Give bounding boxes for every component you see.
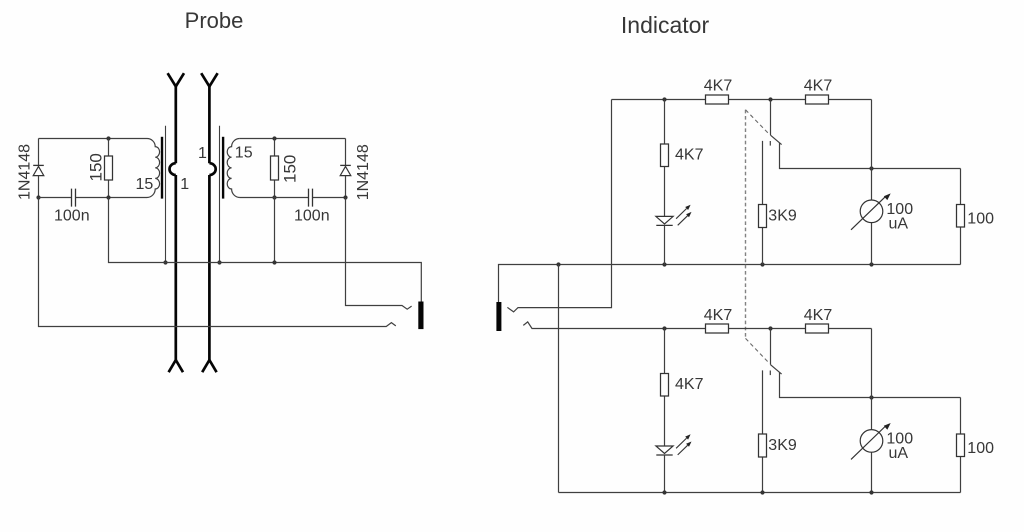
LED LED2 xyxy=(656,446,673,454)
svg-text:4K7: 4K7 xyxy=(704,307,733,324)
switch S2 blade xyxy=(771,365,782,374)
switch S1 blade xyxy=(771,135,782,144)
switch S1 pole xyxy=(770,100,772,136)
node out2-meter xyxy=(869,395,873,399)
resistor R7 100 xyxy=(960,169,962,265)
node left top junction xyxy=(106,136,110,140)
diode D2 1N4148 xyxy=(345,139,347,166)
transformer T2 secondary winding 15 turns xyxy=(227,139,240,198)
svg-text:100: 100 xyxy=(967,440,994,457)
meter M2 100uA xyxy=(860,430,883,453)
svg-text:3K9: 3K9 xyxy=(768,437,797,454)
svg-text:1: 1 xyxy=(180,176,189,193)
switch gang dashed link xyxy=(745,110,747,339)
probe antenna tip 1 with 1-turn winding xyxy=(168,73,184,372)
transformer T1 core bar xyxy=(161,137,163,199)
wire probe upper output to plug contact xyxy=(346,198,412,310)
node toprail1-switch xyxy=(768,97,772,101)
wire ch2 bottom rail xyxy=(559,492,961,494)
resistor R1 150 xyxy=(108,139,110,198)
svg-text:100n: 100n xyxy=(294,208,330,225)
node botrail2-led xyxy=(662,490,666,494)
diode D1 1N4148 xyxy=(38,139,40,166)
resistor R5 4K7 vertical ch1 xyxy=(664,100,666,217)
resistor R12 100 xyxy=(960,398,962,493)
capacitor C2 100n xyxy=(309,189,313,207)
wire right resistor branch to rail xyxy=(274,198,276,263)
resistor R11 3K9 xyxy=(762,370,764,492)
svg-text:Indicator: Indicator xyxy=(621,12,710,38)
node right branch on rail xyxy=(272,260,276,264)
wire jack upper contact to ch1 top rail xyxy=(507,100,611,312)
resistor R4 4K7 horizontal xyxy=(806,95,829,104)
node toprail2-led xyxy=(662,326,666,330)
svg-text:1N4148: 1N4148 xyxy=(355,144,372,200)
node right diode bottom junction xyxy=(343,195,347,199)
wire ch1 meter branch xyxy=(871,100,873,265)
jack J1 tip bar xyxy=(496,302,501,331)
node botrail2-3k9 xyxy=(760,490,764,494)
node rail-led1 xyxy=(662,262,666,266)
svg-text:15: 15 xyxy=(235,145,253,162)
node left resistor bottom junction xyxy=(106,195,110,199)
wire ch1 top rail xyxy=(612,99,872,101)
svg-text:3K9: 3K9 xyxy=(768,208,797,225)
node rail-interchannel xyxy=(556,262,560,266)
svg-text:150: 150 xyxy=(281,155,300,183)
capacitor C1 100n xyxy=(72,189,76,207)
svg-text:Probe: Probe xyxy=(185,8,244,33)
wire probe common rail to plug tip xyxy=(109,198,422,302)
node left diode bottom junction xyxy=(36,195,40,199)
transformer T1 primary winding 15 turns xyxy=(147,139,160,198)
wire switch1 output xyxy=(780,143,961,169)
switch S2 contact tick xyxy=(769,371,771,376)
node toprail2-switch xyxy=(768,326,772,330)
resistor R10 4K7 vertical ch2 xyxy=(664,329,666,447)
wire probe-right bottom xyxy=(240,197,346,199)
node rail-3k9-1 xyxy=(760,262,764,266)
node screen-1 to rail xyxy=(163,260,167,264)
node toprail1-led xyxy=(662,97,666,101)
svg-text:150: 150 xyxy=(87,153,106,181)
probe antenna tip 2 with 1-turn winding xyxy=(201,73,217,372)
svg-text:100: 100 xyxy=(967,210,994,227)
transformer T2 screen line xyxy=(219,126,221,263)
svg-text:uA: uA xyxy=(889,445,909,462)
svg-text:uA: uA xyxy=(889,215,909,232)
node right resistor bottom junction xyxy=(272,195,276,199)
switch S2 pole xyxy=(770,329,772,365)
svg-text:100n: 100n xyxy=(54,208,90,225)
wire jack lower contact to ch2 top rail xyxy=(523,322,871,329)
node right resistor top junction xyxy=(272,136,276,140)
node screen-2 to rail xyxy=(217,260,221,264)
resistor R8 4K7 horizontal xyxy=(706,324,729,333)
transformer T1 screen line xyxy=(165,126,167,263)
node botrail2-meter xyxy=(869,490,873,494)
resistor R2 150 xyxy=(274,139,276,198)
transformer T2 core bar xyxy=(222,137,224,199)
resistor R9 4K7 horizontal xyxy=(806,324,829,333)
wire ch2 meter branch xyxy=(871,329,873,493)
meter M1 100uA xyxy=(860,200,883,223)
node out1-meter xyxy=(869,166,873,170)
LED LED1 xyxy=(656,216,673,224)
svg-text:4K7: 4K7 xyxy=(804,78,833,95)
plug P1 tip bar xyxy=(418,302,423,330)
resistor R3 4K7 horizontal xyxy=(706,95,729,104)
wire jack tip to indicator common rail ch1 xyxy=(499,265,961,303)
wire probe lower output to plug ring xyxy=(39,198,396,327)
svg-text:1: 1 xyxy=(198,145,207,162)
wire probe-left bottom xyxy=(39,197,148,199)
resistor R6 3K9 xyxy=(762,141,764,265)
wire interchannel down xyxy=(558,265,560,493)
wire switch2 output xyxy=(780,372,961,397)
wire probe-left top xyxy=(39,138,148,140)
svg-text:4K7: 4K7 xyxy=(675,376,704,393)
node rail-meter1 xyxy=(869,262,873,266)
svg-text:4K7: 4K7 xyxy=(675,147,704,164)
switch S1 contact tick xyxy=(769,141,771,146)
svg-text:4K7: 4K7 xyxy=(804,307,833,324)
svg-text:4K7: 4K7 xyxy=(704,78,733,95)
svg-text:1N4148: 1N4148 xyxy=(17,144,34,200)
wire probe-right top xyxy=(240,138,346,140)
svg-text:15: 15 xyxy=(136,176,154,193)
